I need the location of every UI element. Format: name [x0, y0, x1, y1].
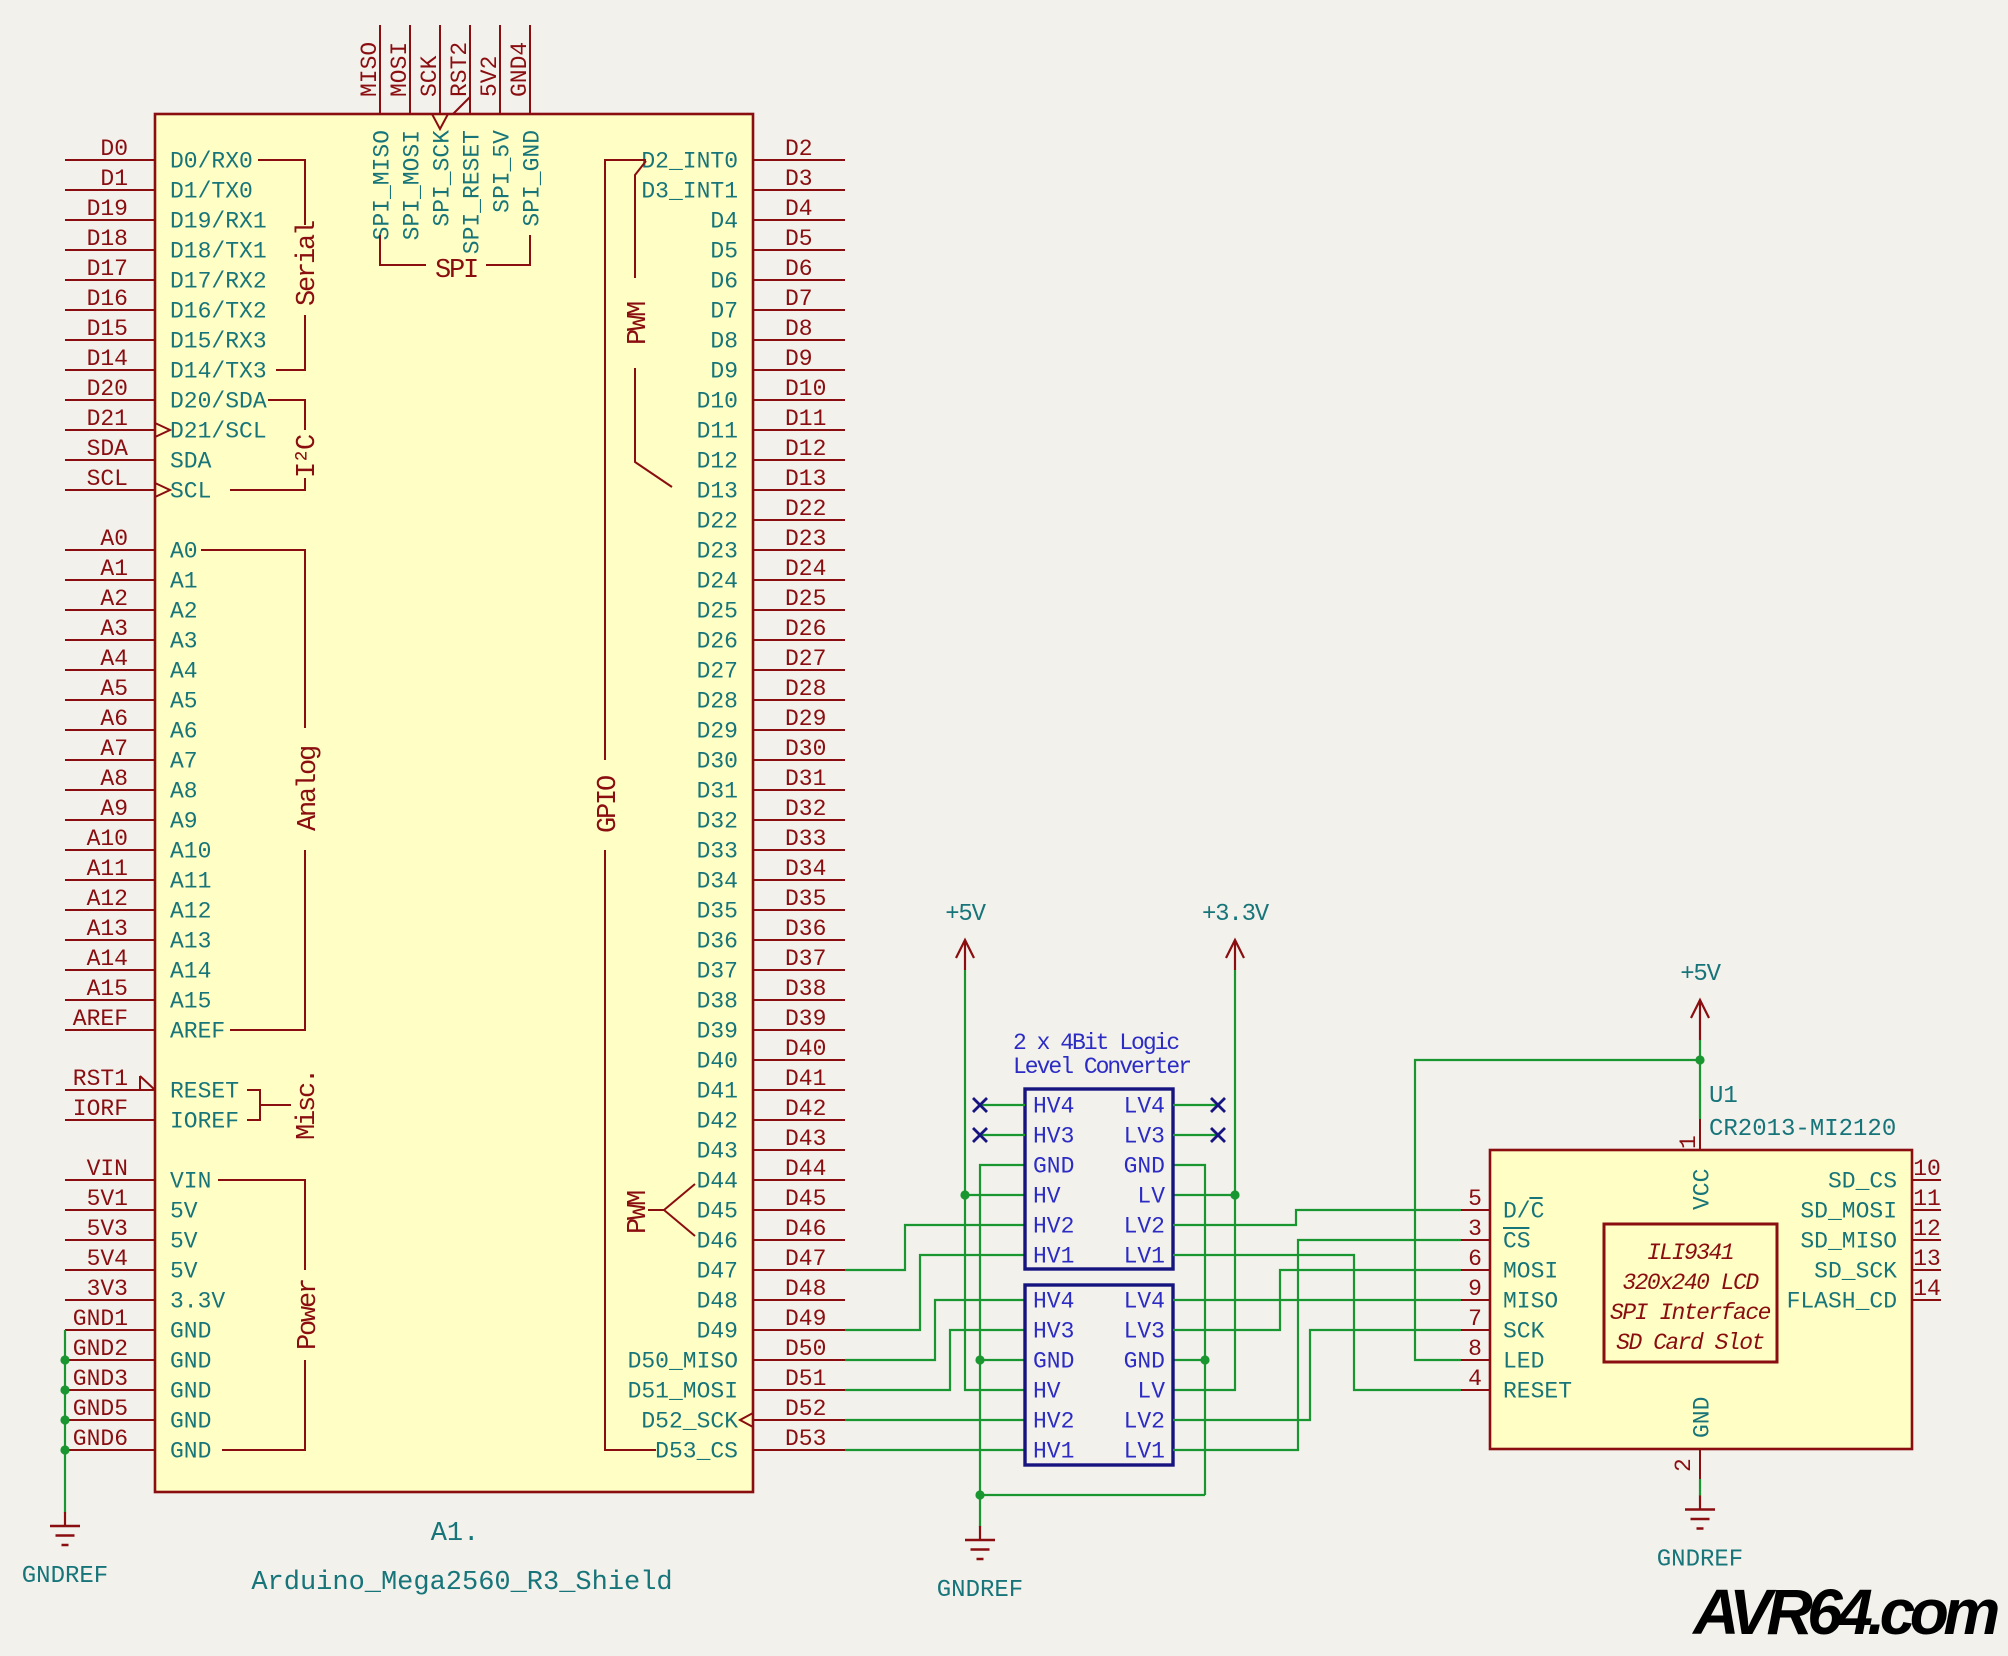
pin D50_MISO / net label D50 (right) — [628, 1336, 845, 1375]
svg-text:D28: D28 — [697, 689, 738, 715]
svg-text:1: 1 — [1676, 1135, 1702, 1149]
power symbol +5V (LCD) — [1691, 1000, 1709, 1018]
LCD pin 7 SCK (left) — [1461, 1306, 1545, 1345]
svg-text:RST2: RST2 — [447, 42, 473, 97]
svg-text:HV4: HV4 — [1033, 1289, 1074, 1315]
svg-text:SPI_RESET: SPI_RESET — [460, 130, 486, 254]
pin D6 / net label D6 (right) — [710, 256, 845, 295]
svg-text:GND: GND — [1124, 1349, 1165, 1375]
svg-text:ILI9341: ILI9341 — [1647, 1240, 1733, 1266]
svg-text:D26: D26 — [785, 616, 826, 642]
svg-text:GNDREF: GNDREF — [1657, 1547, 1743, 1574]
svg-text:GND: GND — [1033, 1349, 1074, 1375]
svg-text:D34: D34 — [697, 869, 738, 895]
svg-text:5: 5 — [1468, 1186, 1482, 1212]
logic level converter U3 body — [1025, 1285, 1173, 1465]
svg-text:D43: D43 — [697, 1139, 738, 1165]
svg-text:D52_SCK: D52_SCK — [641, 1409, 738, 1435]
svg-text:D12: D12 — [785, 436, 826, 462]
svg-text:D24: D24 — [697, 569, 738, 595]
wire LV1 (conv1) to LCD RESET — [1173, 1255, 1461, 1390]
svg-text:SPI: SPI — [435, 256, 477, 286]
wire D51 to HV3 (converter 2) — [845, 1330, 1025, 1390]
svg-text:RST1: RST1 — [73, 1066, 128, 1092]
pin D19/RX1 / net label D19 (left) — [65, 196, 267, 235]
no-connect X HV4 — [973, 1098, 987, 1112]
svg-text:SPI_MISO: SPI_MISO — [370, 130, 396, 240]
svg-text:GND: GND — [170, 1319, 211, 1345]
pin D17/RX2 / net label D17 (left) — [65, 256, 267, 295]
svg-text:I²C: I²C — [293, 434, 323, 478]
pin D25 / net label D25 (right) — [697, 586, 845, 625]
pin SPI_GND / net label GND4 (top) — [507, 25, 546, 227]
svg-text:IORF: IORF — [73, 1096, 128, 1122]
svg-text:A0: A0 — [100, 526, 128, 552]
svg-text:SCL: SCL — [87, 466, 128, 492]
svg-text:SPI_5V: SPI_5V — [490, 130, 516, 213]
pin D49 / net label D49 (right) — [697, 1306, 845, 1345]
junction GND left at converter 2 — [975, 1355, 984, 1364]
LCD pin 13 SD_SCK (right) — [1814, 1246, 1941, 1285]
svg-text:D45: D45 — [785, 1186, 826, 1212]
svg-text:11: 11 — [1913, 1186, 1941, 1212]
wire +5V to HV pins — [965, 970, 1025, 1390]
svg-text:PWM: PWM — [624, 1191, 654, 1234]
pin IOREF / net label IORF (left) — [65, 1096, 239, 1135]
pin D31 / net label D31 (right) — [697, 766, 845, 805]
svg-text:D18/TX1: D18/TX1 — [170, 239, 267, 265]
svg-text:D32: D32 — [785, 796, 826, 822]
svg-text:A1: A1 — [100, 556, 128, 582]
pin D30 / net label D30 (right) — [697, 736, 845, 775]
pin D41 / net label D41 (right) — [697, 1066, 845, 1105]
svg-text:SCL: SCL — [170, 479, 211, 505]
svg-text:Misc.: Misc. — [293, 1070, 323, 1140]
group bracket PWM (D44-D46) — [648, 1184, 695, 1236]
svg-text:D2_INT0: D2_INT0 — [641, 149, 738, 175]
pin A11 / net label A11 (left) — [65, 856, 211, 895]
wire LV4 (conv2) to LCD MISO — [1173, 1299, 1461, 1301]
input arrow at pin SCL — [155, 483, 170, 497]
overline on D/C pin name — [1529, 1197, 1542, 1199]
svg-text:LV: LV — [1137, 1184, 1165, 1210]
svg-text:A14: A14 — [170, 959, 211, 985]
svg-text:SD_CS: SD_CS — [1828, 1169, 1897, 1195]
pin D11 / net label D11 (right) — [697, 406, 845, 445]
group bracket SPI (top) — [380, 235, 530, 265]
pin D53_CS / net label D53 (right) — [655, 1426, 845, 1465]
svg-text:GND5: GND5 — [73, 1396, 128, 1422]
svg-text:GND: GND — [1033, 1154, 1074, 1180]
svg-text:A10: A10 — [87, 826, 128, 852]
svg-text:GND: GND — [170, 1439, 211, 1465]
svg-text:LED: LED — [1503, 1349, 1544, 1375]
pin D18/TX1 / net label D18 (left) — [65, 226, 267, 265]
svg-text:HV: HV — [1033, 1184, 1061, 1210]
pin D16/TX2 / net label D16 (left) — [65, 286, 267, 325]
no-connect X HV3 — [973, 1128, 987, 1142]
junction GND3 — [60, 1385, 69, 1394]
svg-text:Level Converter: Level Converter — [1013, 1054, 1190, 1080]
svg-text:D40: D40 — [697, 1049, 738, 1075]
svg-text:12: 12 — [1913, 1216, 1941, 1242]
svg-text:A8: A8 — [170, 779, 198, 805]
pin GND / net label GND6 (left) — [65, 1426, 211, 1465]
wire D47 to HV2 (converter 1) — [845, 1225, 1025, 1270]
svg-text:D49: D49 — [785, 1306, 826, 1332]
pin SPI_MOSI / net label MOSI (top) — [387, 25, 426, 240]
svg-text:D21/SCL: D21/SCL — [170, 419, 267, 445]
junction GND6 — [60, 1445, 69, 1454]
svg-text:VIN: VIN — [170, 1169, 211, 1195]
pin D42 / net label D42 (right) — [697, 1096, 845, 1135]
svg-text:A13: A13 — [87, 916, 128, 942]
pin SPI_RESET / net label RST2 (top) — [447, 25, 486, 254]
svg-text:VCC: VCC — [1690, 1169, 1716, 1210]
junction GND bottom — [975, 1490, 984, 1499]
svg-text:D14: D14 — [87, 346, 128, 372]
svg-text:A11: A11 — [170, 869, 211, 895]
pin SPI_SCK / net label SCK (top) — [417, 25, 456, 227]
svg-text:D0/RX0: D0/RX0 — [170, 149, 253, 175]
global label flag RST1 — [140, 1076, 155, 1090]
svg-text:D8: D8 — [785, 316, 813, 342]
wire GND bus (Arduino GND pins) — [64, 1330, 66, 1513]
LCD pin 8 LED (left) — [1461, 1336, 1544, 1375]
junction GND right at converter 2 — [1200, 1355, 1209, 1364]
wire LV3 (conv2) to LCD MOSI — [1173, 1270, 1461, 1330]
svg-text:HV3: HV3 — [1033, 1124, 1074, 1150]
pin A13 / net label A13 (left) — [65, 916, 211, 955]
svg-text:D31: D31 — [785, 766, 826, 792]
svg-text:D32: D32 — [697, 809, 738, 835]
svg-text:D27: D27 — [697, 659, 738, 685]
svg-text:D1/TX0: D1/TX0 — [170, 179, 253, 205]
svg-text:SDA: SDA — [170, 449, 212, 475]
ground GNDREF (middle) — [979, 1526, 981, 1540]
svg-text:D19: D19 — [87, 196, 128, 222]
wire GND left chain (converter) — [980, 1165, 1025, 1527]
svg-text:D11: D11 — [785, 406, 826, 432]
svg-text:LV1: LV1 — [1124, 1439, 1165, 1465]
svg-text:D28: D28 — [785, 676, 826, 702]
pin GND / net label GND3 (left) — [65, 1366, 211, 1405]
svg-text:D3_INT1: D3_INT1 — [641, 179, 738, 205]
wire GND bottom link — [980, 1494, 1205, 1496]
pin D38 / net label D38 (right) — [697, 976, 845, 1015]
pin D40 / net label D40 (right) — [697, 1036, 845, 1075]
svg-text:D/C: D/C — [1503, 1199, 1544, 1225]
svg-text:3: 3 — [1468, 1216, 1482, 1242]
pin D35 / net label D35 (right) — [697, 886, 845, 925]
svg-text:CS: CS — [1503, 1229, 1531, 1255]
svg-text:A7: A7 — [170, 749, 198, 775]
pin D52_SCK / net label D52 (right) — [641, 1396, 845, 1435]
svg-text:A4: A4 — [100, 646, 128, 672]
svg-text:SDA: SDA — [87, 436, 129, 462]
pin D47 / net label D47 (right) — [697, 1246, 845, 1285]
svg-text:A1.: A1. — [431, 1519, 480, 1549]
svg-text:D46: D46 — [697, 1229, 738, 1255]
svg-text:HV3: HV3 — [1033, 1319, 1074, 1345]
pin D20/SDA / net label D20 (left) — [65, 376, 267, 415]
svg-text:D7: D7 — [710, 299, 738, 325]
wire +3.3V to LV pins — [1173, 970, 1235, 1390]
svg-text:GND: GND — [1124, 1154, 1165, 1180]
svg-text:D37: D37 — [785, 946, 826, 972]
svg-text:GPIO: GPIO — [594, 776, 624, 833]
svg-text:LV4: LV4 — [1124, 1094, 1165, 1120]
svg-text:7: 7 — [1468, 1306, 1482, 1332]
svg-text:D15/RX3: D15/RX3 — [170, 329, 267, 355]
svg-text:D39: D39 — [785, 1006, 826, 1032]
LCD info box — [1604, 1224, 1777, 1362]
svg-text:AREF: AREF — [73, 1006, 128, 1032]
svg-text:+3.3V: +3.3V — [1202, 901, 1270, 928]
LCD pin 9 MISO (left) — [1461, 1276, 1558, 1315]
svg-text:GND4: GND4 — [507, 42, 533, 97]
overline on CS pin name — [1503, 1227, 1529, 1229]
svg-text:MOSI: MOSI — [387, 42, 413, 97]
LCD pin 5 D/C (left) — [1461, 1186, 1544, 1225]
pin D13 / net label D13 (right) — [697, 466, 845, 505]
pin D46 / net label D46 (right) — [697, 1216, 845, 1255]
svg-text:D13: D13 — [697, 479, 738, 505]
svg-text:D38: D38 — [697, 989, 738, 1015]
svg-text:D25: D25 — [785, 586, 826, 612]
svg-text:5V: 5V — [170, 1229, 198, 1255]
pin D8 / net label D8 (right) — [710, 316, 845, 355]
svg-text:GND: GND — [1690, 1397, 1716, 1438]
svg-text:A15: A15 — [87, 976, 128, 1002]
pin D12 / net label D12 (right) — [697, 436, 845, 475]
pin D7 / net label D7 (right) — [710, 286, 845, 325]
svg-text:LV3: LV3 — [1124, 1319, 1165, 1345]
svg-text:6: 6 — [1468, 1246, 1482, 1272]
LCD pin 11 SD_MOSI (right) — [1800, 1186, 1941, 1225]
pin SDA / net label SDA (left) — [65, 436, 212, 475]
svg-text:D16: D16 — [87, 286, 128, 312]
wire LV1 (conv2) to LCD CS — [1173, 1240, 1461, 1450]
pin A5 / net label A5 (left) — [65, 676, 198, 715]
wire D49 to HV1 (converter 1) — [845, 1255, 1025, 1330]
svg-text:SD_MOSI: SD_MOSI — [1800, 1199, 1897, 1225]
wire GND (LCD) to ground — [1699, 1479, 1701, 1496]
svg-text:D50: D50 — [785, 1336, 826, 1362]
svg-text:D23: D23 — [785, 526, 826, 552]
svg-text:D52: D52 — [785, 1396, 826, 1422]
svg-text:A6: A6 — [100, 706, 128, 732]
group bracket Power — [218, 1180, 305, 1450]
pin D45 / net label D45 (right) — [697, 1186, 845, 1225]
group bracket I2C — [230, 400, 305, 490]
svg-text:A2: A2 — [170, 599, 198, 625]
LCD pin 3 CS (left) — [1461, 1216, 1531, 1255]
svg-text:D15: D15 — [87, 316, 128, 342]
svg-text:CR2013-MI2120: CR2013-MI2120 — [1709, 1116, 1896, 1143]
svg-text:D35: D35 — [785, 886, 826, 912]
pin A2 / net label A2 (left) — [65, 586, 198, 625]
group bracket PWM (D2-D13) — [635, 161, 672, 487]
svg-text:D10: D10 — [785, 376, 826, 402]
svg-text:D51_MOSI: D51_MOSI — [628, 1379, 738, 1405]
svg-text:8: 8 — [1468, 1336, 1482, 1362]
ground GNDREF (LCD) — [1699, 1496, 1701, 1510]
pin D21/SCL / net label D21 (left) — [65, 406, 267, 445]
svg-text:GND: GND — [170, 1409, 211, 1435]
svg-text:D44: D44 — [785, 1156, 826, 1182]
pin D36 / net label D36 (right) — [697, 916, 845, 955]
svg-text:5V: 5V — [170, 1259, 198, 1285]
svg-text:D42: D42 — [697, 1109, 738, 1135]
pin A7 / net label A7 (left) — [65, 736, 198, 775]
svg-text:VIN: VIN — [87, 1156, 128, 1182]
pin D39 / net label D39 (right) — [697, 1006, 845, 1045]
svg-text:GND3: GND3 — [73, 1366, 128, 1392]
svg-text:GND1: GND1 — [73, 1306, 128, 1332]
svg-text:4: 4 — [1468, 1366, 1482, 1392]
pin HV4 stub (no connect) — [980, 1104, 1025, 1106]
svg-text:D44: D44 — [697, 1169, 738, 1195]
pin A3 / net label A3 (left) — [65, 616, 198, 655]
svg-text:D49: D49 — [697, 1319, 738, 1345]
pin D26 / net label D26 (right) — [697, 616, 845, 655]
svg-text:D33: D33 — [785, 826, 826, 852]
svg-text:D4: D4 — [710, 209, 738, 235]
svg-text:A2: A2 — [100, 586, 128, 612]
svg-text:Analog: Analog — [294, 747, 324, 831]
svg-text:D20/SDA: D20/SDA — [170, 389, 267, 415]
LCD pin 10 SD_CS (right) — [1828, 1156, 1941, 1195]
pin GND / net label GND5 (left) — [65, 1396, 211, 1435]
svg-text:SCK: SCK — [1503, 1319, 1545, 1345]
svg-text:LV3: LV3 — [1124, 1124, 1165, 1150]
svg-text:SD_SCK: SD_SCK — [1814, 1259, 1897, 1285]
svg-text:D48: D48 — [697, 1289, 738, 1315]
svg-text:D36: D36 — [697, 929, 738, 955]
svg-text:D47: D47 — [697, 1259, 738, 1285]
svg-text:D3: D3 — [785, 166, 813, 192]
junction GND2 — [60, 1355, 69, 1364]
svg-text:A15: A15 — [170, 989, 211, 1015]
pin A9 / net label A9 (left) — [65, 796, 198, 835]
power symbol +3.3V — [1226, 940, 1244, 958]
svg-text:SPI_SCK: SPI_SCK — [430, 130, 456, 227]
svg-text:HV1: HV1 — [1033, 1244, 1074, 1270]
clock/input arrow at pin SPI_SCK — [432, 114, 448, 129]
svg-text:D22: D22 — [785, 496, 826, 522]
svg-text:D11: D11 — [697, 419, 738, 445]
svg-text:A5: A5 — [100, 676, 128, 702]
pin A10 / net label A10 (left) — [65, 826, 211, 865]
svg-text:GND: GND — [170, 1379, 211, 1405]
svg-text:D17: D17 — [87, 256, 128, 282]
pin A1 / net label A1 (left) — [65, 556, 198, 595]
pin SPI_5V / net label 5V2 (top) — [477, 25, 516, 213]
svg-text:D14/TX3: D14/TX3 — [170, 359, 267, 385]
svg-text:D26: D26 — [697, 629, 738, 655]
svg-text:320x240 LCD: 320x240 LCD — [1622, 1270, 1759, 1296]
svg-text:SPI Interface: SPI Interface — [1610, 1300, 1771, 1326]
svg-text:D45: D45 — [697, 1199, 738, 1225]
svg-text:+5V: +5V — [1680, 961, 1721, 988]
pin D14/TX3 / net label D14 (left) — [65, 346, 267, 385]
wire LV2 (conv1) to LCD D/C — [1173, 1210, 1461, 1225]
svg-text:A3: A3 — [170, 629, 198, 655]
svg-text:D51: D51 — [785, 1366, 826, 1392]
no-connect X LV3 — [1211, 1128, 1225, 1142]
svg-text:A5: A5 — [170, 689, 198, 715]
pin D5 / net label D5 (right) — [710, 226, 845, 265]
wire GND right chain (converter) — [1173, 1165, 1205, 1495]
group bracket Misc — [247, 1090, 291, 1120]
pin GND / net label GND2 (left) — [65, 1336, 211, 1375]
svg-text:D20: D20 — [87, 376, 128, 402]
input arrow at pin D21/SCL — [155, 423, 170, 437]
svg-text:D31: D31 — [697, 779, 738, 805]
svg-text:D35: D35 — [697, 899, 738, 925]
pin D22 / net label D22 (right) — [697, 496, 845, 535]
svg-text:D16/TX2: D16/TX2 — [170, 299, 267, 325]
pin D43 / net label D43 (right) — [697, 1126, 845, 1165]
svg-text:HV: HV — [1033, 1379, 1061, 1405]
svg-text:Arduino_Mega2560_R3_Shield: Arduino_Mega2560_R3_Shield — [251, 1568, 672, 1598]
svg-text:D12: D12 — [697, 449, 738, 475]
svg-text:D40: D40 — [785, 1036, 826, 1062]
svg-text:IOREF: IOREF — [170, 1109, 239, 1135]
svg-text:D4: D4 — [785, 196, 813, 222]
pin D15/RX3 / net label D15 (left) — [65, 316, 267, 355]
pin D29 / net label D29 (right) — [697, 706, 845, 745]
svg-text:D6: D6 — [710, 269, 738, 295]
pin 3.3V / net label 3V3 (left) — [65, 1276, 225, 1315]
svg-text:D33: D33 — [697, 839, 738, 865]
svg-text:D5: D5 — [710, 239, 738, 265]
pin SCL / net label SCL (left) — [65, 466, 211, 505]
LCD pin 6 MOSI (left) — [1461, 1246, 1558, 1285]
svg-text:D22: D22 — [697, 509, 738, 535]
svg-text:HV4: HV4 — [1033, 1094, 1074, 1120]
svg-text:GND: GND — [170, 1349, 211, 1375]
svg-text:A10: A10 — [170, 839, 211, 865]
wire +5V to VCC and LED — [1415, 1040, 1700, 1360]
svg-text:A9: A9 — [170, 809, 198, 835]
svg-text:5V: 5V — [170, 1199, 198, 1225]
svg-text:MOSI: MOSI — [1503, 1259, 1558, 1285]
svg-text:A11: A11 — [87, 856, 128, 882]
wire D50 to HV4 (converter 2) — [845, 1300, 1025, 1360]
LCD pin 1 VCC (top) — [1676, 1119, 1716, 1210]
svg-text:D53: D53 — [785, 1426, 826, 1452]
svg-text:5V2: 5V2 — [477, 56, 503, 97]
svg-text:MISO: MISO — [357, 42, 383, 97]
group bracket Serial — [258, 160, 305, 370]
svg-text:13: 13 — [1913, 1246, 1941, 1272]
svg-text:RESET: RESET — [170, 1079, 239, 1105]
pin 5V / net label 5V1 (left) — [65, 1186, 198, 1225]
pin A0 / net label A0 (left) — [65, 526, 198, 565]
svg-text:10: 10 — [1913, 1156, 1941, 1182]
svg-text:D39: D39 — [697, 1019, 738, 1045]
svg-text:D29: D29 — [697, 719, 738, 745]
svg-text:D36: D36 — [785, 916, 826, 942]
pin D3_INT1 / net label D3 (right) — [641, 166, 845, 205]
svg-text:RESET: RESET — [1503, 1379, 1572, 1405]
svg-text:D34: D34 — [785, 856, 826, 882]
junction +5V at HV (converter 1) — [960, 1190, 969, 1199]
pin SPI_MISO / net label MISO (top) — [357, 25, 396, 240]
wire D53 to HV1 (converter 2) — [845, 1449, 1025, 1451]
